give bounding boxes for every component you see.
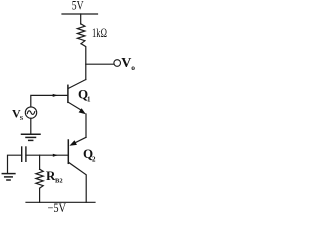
- svg-text:5V: 5V: [72, 0, 84, 12]
- svg-text:1: 1: [87, 96, 91, 104]
- svg-text:1kΩ: 1kΩ: [92, 26, 107, 40]
- svg-text:S: S: [20, 115, 24, 122]
- svg-text:V: V: [121, 56, 131, 71]
- svg-text:−5V: −5V: [48, 201, 67, 215]
- svg-text:o: o: [131, 63, 135, 72]
- svg-text:2: 2: [92, 156, 96, 164]
- svg-text:B2: B2: [55, 178, 63, 185]
